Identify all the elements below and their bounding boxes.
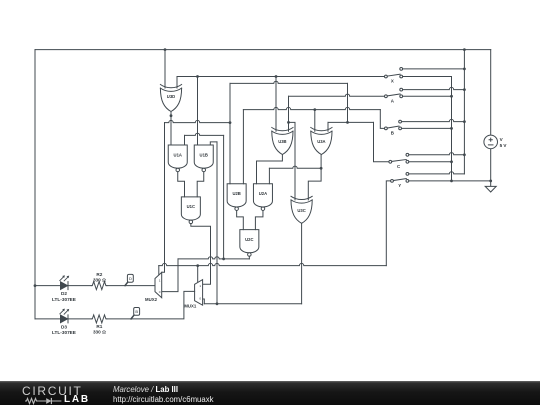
switch C bbox=[392, 160, 407, 162]
wire source top lead bbox=[490, 50, 492, 135]
svg-text:D: D bbox=[129, 276, 132, 281]
svg-text:D3: D3 bbox=[61, 325, 67, 330]
node A net y122.4 bbox=[287, 121, 290, 124]
wire B net drop to U2B right input bbox=[242, 110, 244, 184]
wire R2 to MUX2 out bbox=[107, 285, 155, 287]
wire A net horizontal bbox=[289, 94, 385, 96]
nand gate U1A bbox=[168, 145, 187, 168]
svg-text:Y: Y bbox=[398, 183, 401, 188]
node 5V bus X bbox=[463, 68, 466, 71]
wire Y upper throw bbox=[409, 172, 465, 174]
wire U3A output bbox=[308, 155, 321, 200]
wire U1B right input hook bbox=[210, 142, 217, 145]
svg-text:U3B: U3B bbox=[278, 139, 286, 144]
wire U2C-out drop to MUX2 bbox=[162, 259, 178, 292]
nand gate U2A bbox=[253, 184, 272, 207]
svg-text:B: B bbox=[135, 309, 138, 314]
svg-text:MUX1: MUX1 bbox=[184, 303, 197, 308]
xor gate U3A bbox=[311, 128, 332, 131]
wire U3B output to U2A left bbox=[257, 155, 283, 184]
wire Y lower throw to ground bbox=[409, 180, 491, 182]
wire C drop to pole bbox=[374, 122, 389, 161]
svg-text:U2A: U2A bbox=[259, 191, 267, 196]
wire C net right riser x347.5 bbox=[347, 83, 349, 122]
wire A upper throw bbox=[403, 87, 465, 89]
wire X to U3B left input bbox=[275, 77, 277, 132]
probe flag D bbox=[125, 282, 128, 286]
voltage source V 5V bbox=[484, 135, 498, 149]
svg-text:LTL-307EE: LTL-307EE bbox=[52, 330, 76, 335]
svg-text:U3A: U3A bbox=[317, 139, 325, 144]
svg-text:C: C bbox=[397, 164, 401, 169]
LED D3 bbox=[61, 315, 68, 323]
svg-text:330 Ω: 330 Ω bbox=[93, 277, 106, 282]
wire left rail bbox=[34, 50, 36, 319]
node gnd bus B bbox=[450, 127, 453, 130]
node 5V bus B bbox=[463, 120, 466, 123]
wire top 5V rail bbox=[35, 49, 491, 51]
node X to U3B bbox=[275, 75, 278, 78]
wire B upper throw bbox=[402, 119, 465, 121]
nand gate U2C bbox=[240, 230, 259, 253]
wire Y net long horizontal bbox=[159, 263, 386, 265]
node left rail D2 branch bbox=[34, 284, 37, 287]
node 5V bus C bbox=[463, 153, 466, 156]
wire U2A output to U2C bbox=[255, 210, 263, 229]
node U2C-out to U1A feedback bbox=[222, 258, 225, 261]
node top rail to U3D bbox=[164, 48, 167, 51]
node top rail to 5V bus bbox=[463, 48, 466, 51]
node U3A out branch bbox=[320, 167, 323, 170]
wire U2C-out feedback to U1A right input bbox=[185, 133, 224, 135]
svg-text:U2C: U2C bbox=[245, 237, 253, 242]
wire C net upper horizontal bbox=[230, 81, 348, 83]
node gnd bus A bbox=[450, 95, 453, 98]
resistor R1 bbox=[91, 315, 107, 323]
svg-text:1: 1 bbox=[159, 278, 161, 282]
wire U2B output to U2C bbox=[237, 210, 244, 229]
svg-text:5 V: 5 V bbox=[500, 143, 508, 148]
wire feedback riser x223.6 bbox=[223, 135, 225, 259]
wire U3C output down bbox=[301, 223, 303, 303]
node C net y122.6 bbox=[229, 121, 232, 124]
wire gnd bus bbox=[451, 77, 453, 181]
wire U3C-out jog to MUX1 0 bbox=[203, 299, 205, 304]
logo resistor+diode glyph bbox=[25, 396, 62, 406]
svg-text:U3C: U3C bbox=[297, 208, 305, 213]
wire U1B hook riser x217 bbox=[216, 142, 218, 304]
wire X upper throw bbox=[403, 68, 465, 70]
switch X bbox=[387, 74, 400, 76]
wire D2-R2 bbox=[68, 285, 92, 287]
wire U1B output to U1C bbox=[197, 172, 204, 197]
wire A net drop to U3B right input bbox=[288, 96, 290, 131]
wire U1A right input drop bbox=[184, 135, 186, 145]
wire B net horizontal bbox=[243, 107, 380, 109]
wire A net jog to U3C left input bbox=[289, 122, 296, 199]
nand gate U1B bbox=[194, 145, 213, 168]
nand gate U2B bbox=[227, 184, 246, 207]
wire U2A right input drop bbox=[268, 168, 270, 183]
wire D3 row left bbox=[35, 318, 60, 320]
svg-text:0: 0 bbox=[199, 297, 201, 301]
wire D2 row left bbox=[35, 285, 60, 287]
node 5V bus A bbox=[463, 88, 466, 91]
wire U3C-out horizontal bbox=[204, 303, 301, 305]
nand gate U1C bbox=[181, 197, 200, 220]
wire U1A output to U1C bbox=[178, 172, 185, 197]
node source-ground junction bbox=[489, 180, 492, 183]
wire U3D left input from rail bbox=[164, 50, 166, 88]
svg-text:B: B bbox=[391, 131, 394, 136]
wire X net horizontal bbox=[177, 76, 384, 78]
svg-text:U1C: U1C bbox=[187, 204, 195, 209]
title Marcelove / Lab III bbox=[113, 385, 178, 394]
wire U3D output bbox=[170, 112, 172, 146]
LED D2 bbox=[61, 282, 68, 290]
svg-text:330 Ω: 330 Ω bbox=[93, 329, 106, 334]
wire source bottom lead bbox=[490, 149, 492, 181]
wire C net to switch C segment bbox=[328, 121, 374, 123]
mux MUX1 bbox=[195, 280, 203, 306]
CircuitLab logo text LAB bbox=[64, 394, 90, 405]
node U3D output dot bbox=[170, 114, 173, 117]
svg-text:D2: D2 bbox=[61, 291, 67, 296]
mux MUX2 bbox=[155, 272, 162, 297]
svg-text:LTL-307EE: LTL-307EE bbox=[52, 297, 76, 302]
node gnd bus Y bbox=[450, 180, 453, 183]
node gnd bus C bbox=[450, 160, 453, 163]
probe flag B bbox=[131, 315, 134, 319]
wire MUX1 select drop bbox=[197, 266, 199, 282]
node X to U1B bbox=[196, 75, 199, 78]
wire D3-R1 bbox=[68, 318, 92, 320]
wire U3A right input riser bbox=[327, 122, 329, 131]
ground symbol bbox=[485, 181, 496, 192]
svg-text:U3D: U3D bbox=[167, 94, 175, 99]
svg-text:X: X bbox=[391, 79, 394, 84]
wire C lower throw bbox=[409, 161, 452, 163]
switch A bbox=[387, 94, 400, 96]
xor gate U3B bbox=[272, 128, 293, 131]
wire C net lower-left horizontal bbox=[165, 120, 231, 122]
node Y net to MUX1 select bbox=[196, 264, 199, 267]
wire B net drop to pole bbox=[380, 110, 384, 129]
wire U3A-out to U2A right bbox=[269, 166, 321, 168]
xor gate U3D bbox=[160, 85, 181, 88]
wire X lower throw to gnd bus bbox=[403, 76, 452, 78]
wire U3D right input riser bbox=[176, 77, 178, 89]
wire U1C output to MUX1 bbox=[191, 224, 211, 285]
svg-text:0: 0 bbox=[159, 290, 161, 294]
wire A lower throw bbox=[403, 95, 452, 97]
svg-text:U2B: U2B bbox=[232, 191, 240, 196]
svg-text:V: V bbox=[500, 137, 504, 142]
wire X to U1B left input bbox=[197, 77, 199, 146]
node B net to U3A left bbox=[313, 108, 316, 111]
node U3C-out to U1B hook bbox=[216, 302, 219, 305]
wire Y net riser to pole bbox=[386, 181, 390, 266]
svg-text:U1B: U1B bbox=[200, 152, 208, 157]
svg-text:MUX2: MUX2 bbox=[145, 297, 158, 302]
wire Y net into MUX2 1-input bbox=[158, 266, 160, 276]
switch B bbox=[387, 126, 399, 128]
url bbox=[113, 395, 214, 404]
svg-text:U1A: U1A bbox=[174, 152, 182, 157]
wire R1 to MUX1 out bbox=[107, 291, 195, 319]
footer bar bbox=[0, 381, 540, 405]
CircuitLab logo text CIRCUIT bbox=[22, 384, 83, 398]
wire B lower throw bbox=[402, 127, 452, 129]
wire U2C output stub bbox=[248, 256, 250, 259]
svg-text:1: 1 bbox=[199, 284, 201, 288]
wire B net to U3A left input bbox=[314, 110, 316, 132]
wire C net far-left drop to MUX2 select bbox=[162, 123, 165, 273]
wire C upper throw bbox=[409, 153, 465, 155]
resistor R2 bbox=[91, 282, 107, 290]
node C net y122.4 right bbox=[346, 121, 349, 124]
xor gate U3C bbox=[291, 196, 312, 199]
wire 5V bus bbox=[463, 50, 465, 174]
wire C net left riser x230 bbox=[229, 83, 231, 183]
wire U2C output horizontal bbox=[178, 257, 249, 259]
switch Y bbox=[393, 179, 406, 181]
svg-text:A: A bbox=[391, 98, 395, 103]
